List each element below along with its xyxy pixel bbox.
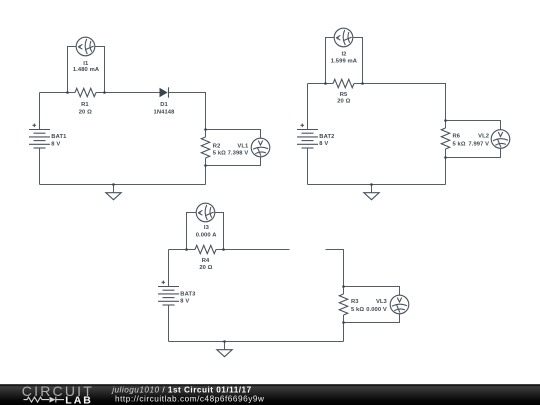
wire bottom rail [308, 184, 446, 186]
svg-text:VL1: VL1 [237, 143, 249, 149]
svg-text:D1: D1 [160, 102, 168, 108]
wire top rail left of R4 [169, 249, 196, 251]
wire R6 bottom lead down to bottom rail [445, 149, 447, 185]
ammeter I3 [196, 203, 215, 222]
junction node R1 right [103, 91, 106, 94]
diode D1 [160, 87, 169, 97]
svg-text:I2: I2 [341, 52, 346, 58]
junction node R3 top [342, 285, 345, 288]
svg-text:BAT1: BAT1 [51, 134, 67, 140]
voltmeter VL2 [491, 130, 510, 149]
ammeter I1 [76, 37, 95, 56]
svg-text:0.000 V: 0.000 V [366, 307, 387, 313]
resistor R6 [441, 128, 449, 149]
svg-text:8 V: 8 V [319, 141, 328, 147]
svg-text:VL2: VL2 [478, 133, 489, 139]
wire right open segment with drop to R3 [326, 250, 344, 287]
wire BAT1 minus down to bottom rail [39, 148, 41, 185]
wire left vertical from BAT2 plus up to top rail [307, 84, 309, 130]
svg-text:5 kΩ: 5 kΩ [351, 307, 364, 313]
junction node R6 bottom [444, 156, 447, 159]
wire voltmeter VL2 loop [446, 121, 501, 158]
resistor R2 [201, 137, 209, 158]
wire top rail left of R1 [40, 92, 76, 94]
junction node ground 3 [223, 340, 226, 343]
svg-text:8 V: 8 V [51, 141, 60, 147]
wire top rail between R1 and D1 [96, 92, 160, 94]
wire R3 bottom lead down to bottom rail [343, 315, 345, 342]
svg-text:7.398 V: 7.398 V [228, 151, 249, 157]
wire bottom rail [40, 184, 206, 186]
svg-text:R1: R1 [81, 102, 89, 108]
svg-text:http://circuitlab.com/c48p6f66: http://circuitlab.com/c48p6f6696y9w [115, 394, 264, 403]
ground of circuit 1 [106, 185, 121, 200]
voltmeter VL3 [390, 295, 409, 314]
svg-text:R4: R4 [202, 258, 210, 264]
logo icon resistor and diode [24, 397, 65, 403]
junction node ground 2 [370, 183, 373, 186]
wire R2 bottom lead down to bottom rail [205, 158, 207, 185]
junction node R5 left [324, 82, 327, 85]
wire top rail right of R4 to open end [216, 249, 290, 251]
wire top rail right of R5 with drop to R6 [354, 84, 446, 121]
svg-text:1.480 mA: 1.480 mA [73, 67, 100, 73]
resistor R3 [339, 294, 347, 315]
svg-text:R6: R6 [453, 133, 461, 139]
wire top rail right of D1 with drop to R2 [169, 93, 206, 130]
svg-text:5 kΩ: 5 kΩ [453, 142, 466, 148]
wire ammeter I2 bypass loop [326, 38, 363, 84]
battery BAT1 [29, 124, 50, 149]
ammeter I2 [334, 28, 353, 47]
junction node R4 right [222, 248, 225, 251]
svg-text:20 Ω: 20 Ω [79, 109, 92, 115]
svg-text:R5: R5 [340, 92, 348, 98]
junction node ground 1 [112, 183, 115, 186]
wire BAT2 minus down to bottom rail [307, 148, 309, 185]
battery BAT3 [158, 281, 179, 306]
voltmeter VL1 [251, 138, 270, 157]
svg-text:8 V: 8 V [180, 298, 189, 304]
junction node R2 bottom [204, 164, 207, 167]
resistor R4 [195, 245, 216, 253]
wire R3 top lead [343, 287, 345, 295]
junction node R3 bottom [342, 321, 345, 324]
resistor R1 [75, 88, 96, 96]
svg-text:I1: I1 [83, 61, 89, 67]
svg-text:juliogu1010 / 1st Circuit 01/1: juliogu1010 / 1st Circuit 01/11/17 [111, 385, 251, 394]
resistor R5 [333, 79, 354, 87]
svg-text:20 Ω: 20 Ω [199, 265, 212, 271]
svg-text:0.000 A: 0.000 A [196, 232, 218, 238]
svg-text:1N4148: 1N4148 [154, 109, 176, 115]
wire R2 top lead [205, 130, 207, 138]
wire voltmeter VL3 loop [344, 287, 400, 323]
wire left vertical from BAT3 plus up to top rail [168, 250, 170, 287]
svg-text:5 kΩ: 5 kΩ [213, 151, 226, 157]
junction node R6 top [444, 119, 447, 122]
svg-text:BAT2: BAT2 [319, 134, 334, 140]
svg-text:BAT3: BAT3 [180, 291, 196, 297]
wire ammeter I3 bypass loop [187, 213, 224, 250]
svg-text:I3: I3 [204, 225, 210, 231]
ground of circuit 2 [364, 185, 379, 200]
svg-text:VL3: VL3 [376, 299, 388, 305]
wire ammeter I1 bypass loop [68, 47, 105, 93]
wire left vertical from BAT1 plus up to top rail [39, 93, 41, 130]
svg-text:7.997 V: 7.997 V [468, 142, 489, 148]
junction node R5 right [361, 82, 364, 85]
wire R6 top lead [445, 121, 447, 129]
wire voltmeter VL1 loop [206, 130, 261, 166]
ground of circuit 3 [217, 342, 232, 357]
battery BAT2 [297, 124, 318, 149]
junction node R1 left [66, 91, 69, 94]
svg-text:1.599 mA: 1.599 mA [331, 58, 358, 64]
svg-text:LAB: LAB [65, 395, 93, 405]
wire top rail left of R5 [308, 83, 334, 85]
wire bottom rail [169, 341, 344, 343]
svg-text:R3: R3 [351, 299, 359, 305]
svg-text:R2: R2 [213, 143, 221, 149]
svg-text:20 Ω: 20 Ω [337, 98, 350, 104]
junction node R4 left [185, 248, 188, 251]
wire BAT3 minus down to bottom rail [168, 305, 170, 342]
junction node R2 top [204, 128, 207, 131]
